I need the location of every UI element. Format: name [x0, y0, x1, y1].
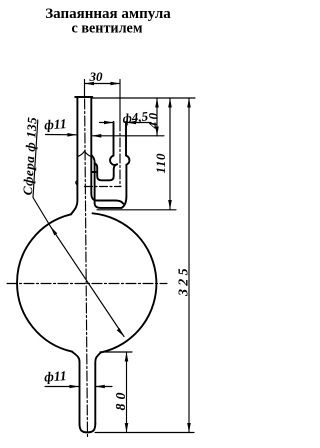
valve chamber inner bottom	[91, 193, 123, 204]
svg-text:40: 40	[146, 110, 161, 129]
sphere right arc	[93, 213, 157, 352]
dim 30 left extension stub	[84, 80, 86, 97]
svg-text:ф11: ф11	[44, 368, 67, 385]
dim Ø4,5 left arrow	[104, 121, 114, 125]
dim 30 line	[85, 83, 121, 85]
bottom tube rounded cap	[80, 424, 96, 433]
left tube cap	[75, 96, 92, 98]
sphere left arc	[17, 214, 72, 351]
dim 110 top arrow	[168, 98, 172, 108]
dim 40 top arrow	[155, 98, 159, 108]
dim Ø11 top right arrow line	[92, 135, 164, 137]
svg-text:110: 110	[153, 153, 168, 174]
sphere diameter lower arrow	[117, 328, 124, 337]
left tube right wall	[90, 97, 92, 193]
dim 30 right arrow	[111, 82, 121, 86]
valve passage top wall	[91, 171, 97, 173]
bottom ext line	[95, 432, 194, 434]
dim 110 line	[169, 98, 171, 210]
valve chamber left wall and bottom	[91, 155, 121, 208]
dim 110 bottom arrow	[168, 200, 172, 210]
dim Ø4,5 right arrow	[127, 121, 137, 125]
valve inner bore cup	[95, 163, 118, 180]
top reference extension line	[92, 97, 195, 99]
dim 40 bottom arrow	[155, 127, 159, 137]
valve tube centerline	[119, 80, 121, 123]
sphere label leader vertical	[33, 120, 38, 198]
dim 80 bottom arrow	[125, 423, 129, 433]
main vertical centerline (axis)	[85, 99, 88, 438]
dim Ø4,5 right line	[127, 122, 152, 124]
sphere horizontal centerline	[7, 283, 167, 285]
dim 80 top arrow	[125, 352, 129, 362]
dim Ø11 bottom right arrow	[95, 385, 105, 389]
dim Ø11 bottom right line	[95, 386, 112, 388]
dim Ø4,5 left line	[100, 122, 114, 124]
svg-text:80: 80	[114, 389, 129, 411]
dim 80 line	[126, 352, 128, 433]
bottom neck right S-curve	[95, 352, 101, 424]
sphere label leader diagonal	[33, 198, 51, 227]
svg-text:30: 30	[89, 69, 104, 84]
valve tube left wall with bump	[110, 122, 117, 165]
dim Ø11 bottom leader	[45, 386, 79, 388]
dim 325 line	[188, 98, 190, 433]
svg-text:ф11: ф11	[44, 116, 67, 133]
seal arch inside left tube	[78, 151, 91, 156]
dim Ø11 top right arrow	[92, 134, 102, 138]
dim 30 left arrow	[85, 82, 95, 86]
svg-text:с вентилем: с вентилем	[71, 21, 142, 37]
valve tube centerline dashdot	[119, 122, 121, 187]
valve passage centerline	[85, 186, 122, 188]
dim Ø11 top left arrow	[67, 133, 77, 137]
dim 325 bottom arrow	[187, 423, 191, 433]
sphere diameter line	[51, 227, 125, 337]
dim 110 ext line	[97, 209, 176, 211]
left tube left wall seal pip	[76, 181, 78, 185]
valve tube right wall with bump	[122, 122, 130, 208]
bottom neck left S-curve	[72, 352, 80, 424]
dim 80 top ext line	[100, 351, 132, 353]
dim 325 top arrow	[187, 98, 191, 108]
dim Ø11 bottom left arrow	[70, 385, 80, 389]
sphere diameter upper arrow	[51, 227, 58, 236]
dim 40 line	[156, 98, 158, 136]
left tube left wall	[71, 97, 77, 214]
dim Ø11 top leader	[46, 134, 77, 136]
svg-text:325: 325	[177, 265, 192, 297]
